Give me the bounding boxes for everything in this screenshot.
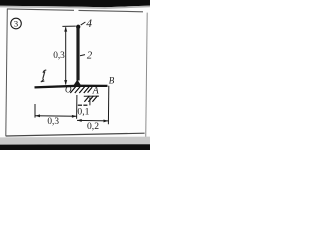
vertical dimension line 0,3: [65, 27, 67, 84]
right frame line: [146, 13, 148, 140]
top frame line (right segment): [79, 10, 144, 11]
dashed dimension 0,1: [78, 104, 82, 106]
bottom frame line: [6, 133, 145, 136]
bottom grey scan band: [0, 137, 150, 145]
dimension line 0,3 bottom: [35, 115, 76, 118]
svg-text:0,3: 0,3: [53, 51, 65, 61]
page background: [0, 0, 150, 150]
leader to label 2: [80, 55, 85, 56]
dimension line 0,2: [77, 119, 108, 122]
svg-text:A: A: [92, 85, 100, 96]
svg-text:0,2: 0,2: [87, 121, 99, 132]
extension stub below ledge: [89, 97, 91, 105]
pivot triangle at O: [73, 80, 81, 86]
support ledge at A: [84, 95, 99, 97]
dash 2 of 0,1: [83, 104, 87, 106]
svg-text:0,1: 0,1: [77, 106, 89, 117]
beam (horizontal): [35, 86, 108, 88]
svg-text:4: 4: [86, 18, 92, 30]
svg-text:2: 2: [87, 51, 93, 62]
svg-text:0,3: 0,3: [47, 117, 59, 127]
arrowhead right of 0,2: [104, 120, 109, 123]
svg-text:B: B: [109, 76, 115, 86]
extension tick at ball level: [62, 25, 75, 27]
arrowhead left of 0,2: [77, 119, 82, 122]
left frame line: [6, 9, 8, 137]
ball at top of rod: [76, 25, 80, 29]
top black scan band: [0, 0, 150, 7]
hatching under ledge: [84, 96, 97, 102]
arrowhead down: [64, 80, 67, 85]
left extension line: [34, 104, 36, 118]
hatching under beam at O: [70, 87, 92, 93]
figure number circle: [11, 18, 22, 29]
arrowhead right (to O ext): [72, 115, 77, 118]
bottom black scan band: [0, 144, 150, 150]
extension line below B: [107, 86, 109, 125]
top grey transition band: [0, 6, 150, 9]
arrowhead up: [64, 27, 67, 32]
leader to label 4: [81, 22, 86, 25]
rod (vertical): [76, 28, 79, 81]
top frame line (left segment): [7, 9, 74, 10]
svg-text:3: 3: [14, 19, 18, 29]
extension line below O: [76, 95, 78, 119]
label 1 (beam, italic l style): [41, 70, 46, 82]
arrowhead left: [35, 114, 40, 117]
